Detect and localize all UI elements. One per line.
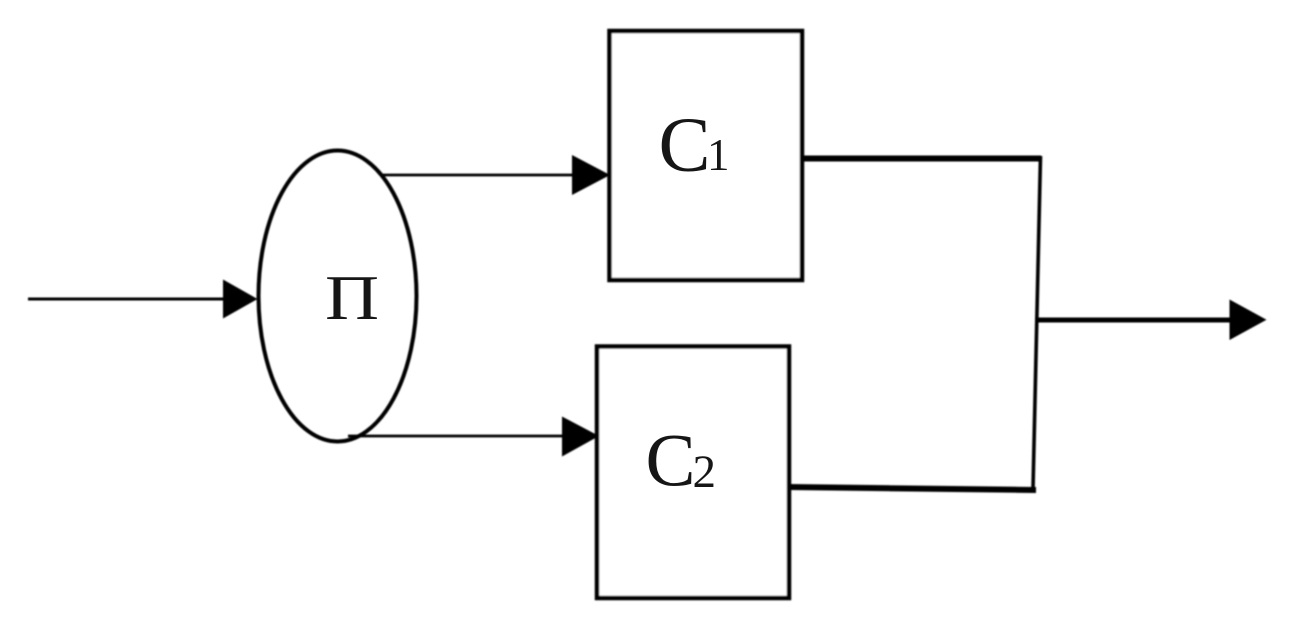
svg-text:Π: Π bbox=[325, 263, 379, 334]
